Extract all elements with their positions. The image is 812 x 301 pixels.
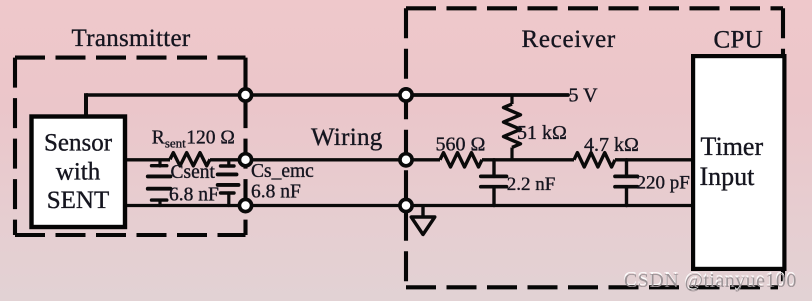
CPU block box <box>693 56 784 269</box>
node: receiver 5V <box>400 89 412 101</box>
resistor R_sent zigzag <box>170 153 210 166</box>
svg-text:4.7 kΩ: 4.7 kΩ <box>584 134 639 156</box>
svg-text:51 kΩ: 51 kΩ <box>517 122 567 144</box>
svg-text:Input: Input <box>700 162 756 191</box>
receiver boundary (dashed box) <box>406 8 783 287</box>
resistor 51k (vertical) <box>504 95 521 160</box>
watermark CSDN @tianyue100 <box>624 268 797 292</box>
svg-text:5 V: 5 V <box>569 85 599 107</box>
node: transmitter signal <box>239 154 251 166</box>
wire: 4.7k to CPU <box>615 158 691 161</box>
svg-text:6.8 nF: 6.8 nF <box>169 185 219 206</box>
svg-text:2.2 nF: 2.2 nF <box>507 174 556 195</box>
wire: 5V rail wiring section <box>246 93 407 97</box>
wire: ground rail wiring section <box>246 204 407 207</box>
wire: ground rail in receiver <box>406 204 691 207</box>
svg-text:Receiver: Receiver <box>522 26 616 53</box>
svg-text:560 Ω: 560 Ω <box>436 133 486 155</box>
svg-text:Transmitter: Transmitter <box>72 25 191 52</box>
resistor 560 ohm zigzag <box>440 153 482 167</box>
ground symbol <box>411 206 435 235</box>
wire: 560 to 4.7k segment <box>482 158 574 161</box>
svg-text:Wiring: Wiring <box>311 124 383 151</box>
wire: receiver signal in <box>406 158 440 161</box>
wire: sensor supply stub <box>84 93 88 117</box>
svg-text:Csent: Csent <box>171 162 216 183</box>
node: transmitter 5V <box>239 89 251 101</box>
svg-text:Sensor: Sensor <box>44 130 113 157</box>
capacitor Cs_emc <box>218 161 239 206</box>
wire: ground rail inside transmitter <box>127 204 246 207</box>
sensor block box <box>32 117 126 228</box>
svg-text:CSDN @tianyue100: CSDN @tianyue100 <box>624 270 797 292</box>
wire: 5V rail inside transmitter <box>86 93 246 97</box>
resistor 4.7k zigzag <box>574 153 615 167</box>
svg-text:with: with <box>56 159 101 186</box>
node: receiver signal <box>400 154 412 166</box>
svg-text:6.8 nF: 6.8 nF <box>251 182 301 203</box>
transmitter boundary (dashed box) <box>15 58 246 235</box>
svg-text:CPU: CPU <box>714 27 764 54</box>
svg-text:Rsent120 Ω: Rsent120 Ω <box>152 127 235 150</box>
capacitor Csent <box>148 161 171 206</box>
wire: signal wiring section <box>246 158 407 161</box>
svg-text:SENT: SENT <box>47 187 110 214</box>
svg-text:Cs_emc: Cs_emc <box>251 161 314 182</box>
capacitor 2.2 nF <box>481 160 507 206</box>
wire: R_sent to node <box>210 158 246 161</box>
svg-text:Timer: Timer <box>701 132 764 161</box>
wire: sensor signal out <box>127 158 170 161</box>
capacitor 220 pF <box>615 160 638 206</box>
svg-text:220 pF: 220 pF <box>637 172 690 193</box>
wire: 5V rail in receiver <box>406 93 568 97</box>
node: transmitter ground <box>239 199 251 211</box>
node: receiver ground <box>400 199 412 211</box>
